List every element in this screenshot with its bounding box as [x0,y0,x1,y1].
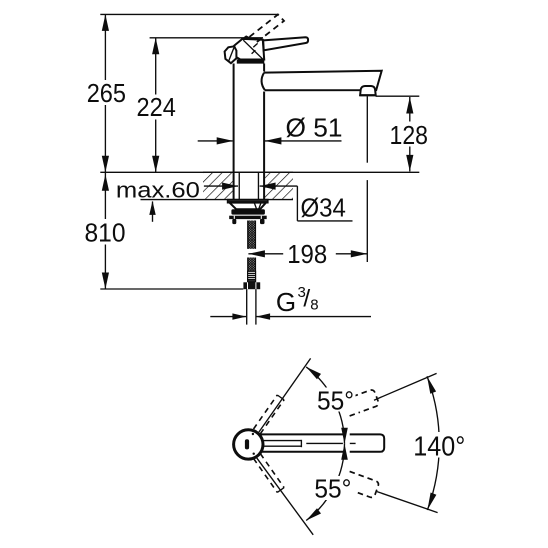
svg-text:265: 265 [87,78,126,108]
svg-text:max.60: max.60 [116,177,200,202]
svg-text:128: 128 [390,120,429,150]
svg-text:Ø34: Ø34 [301,192,346,222]
svg-text:198: 198 [287,239,327,269]
svg-text:55°: 55° [317,386,354,416]
svg-text:140°: 140° [413,431,465,462]
svg-text:Ø 51: Ø 51 [286,113,343,143]
svg-text:810: 810 [85,218,126,248]
svg-text:G: G [276,287,296,317]
svg-text:8: 8 [310,296,318,313]
svg-text:55°: 55° [314,474,351,504]
svg-text:224: 224 [137,92,176,122]
